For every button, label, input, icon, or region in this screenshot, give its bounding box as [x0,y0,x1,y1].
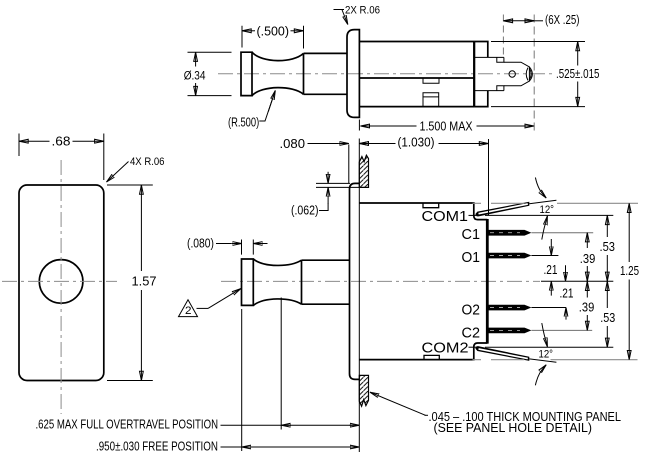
svg-text:(.080): (.080) [187,236,214,251]
panel horizontal centerline [2,280,117,282]
body bottom latch slot [424,355,439,359]
12° upper leader arc A [535,178,545,197]
dim .625 MAX line [221,424,360,426]
12° upper leader arc B [542,219,547,240]
body bottom lug [423,93,439,107]
svg-text:2: 2 [185,305,192,317]
free position ext line [241,309,243,451]
C2 extension line [531,329,592,331]
panel front face line [358,139,360,453]
svg-text:O1: O1 [462,249,481,266]
dim .080 ext line (flange face) [348,145,350,184]
dim .080 line and arrows [308,143,339,145]
dim 1.500 MAX line [360,125,416,127]
terminal base step (top) [475,42,488,58]
plunger knob cap (lower view) [242,259,254,305]
body parting line [359,77,474,79]
svg-text:.68: .68 [52,134,71,149]
dim .68 ext lines [18,134,20,157]
centerline (upper view axis) [218,73,552,75]
svg-text:Ø.34: Ø.34 [184,70,206,82]
dim (1.030) line [359,143,395,145]
dim (.500) extension lines [241,26,243,48]
panel hole [39,260,83,304]
svg-text:COM1: COM1 [422,208,469,225]
terminal notch bottom [497,86,504,91]
callout 2X R.06 leader [342,10,348,25]
blade COM1 angle projection line [529,200,556,203]
COM2 root extension line [485,346,613,348]
dim .39 upper line [586,233,588,248]
callout 4X R.06 leader [107,162,129,183]
blade COM2 angle projection line [529,359,556,362]
plunger knob cap [241,52,252,95]
dim .21 upper arrow (to O1) [550,239,552,256]
dim (.080) plunger ext lines [241,240,243,255]
body right face (thick) [486,219,489,344]
svg-text:(R.500): (R.500) [228,114,259,129]
svg-text:.21: .21 [560,286,574,301]
dim 1.57 line [140,185,142,271]
svg-text:O2: O2 [462,302,481,319]
svg-text:.080: .080 [280,136,306,151]
svg-text:.525±.015: .525±.015 [556,66,600,81]
svg-text:.950±.030 FREE POSITION: .950±.030 FREE POSITION [96,438,218,453]
svg-text:COM2: COM2 [422,340,469,357]
dim 1.25 line [628,203,630,262]
switch body (lower view) [359,203,487,360]
svg-text:.53: .53 [600,310,615,325]
terminal blade COM2 (angled) [475,346,529,361]
body top latch slot [423,203,439,208]
dim Ø.34 line with arrows [195,52,197,66]
O2 extension line [531,307,566,309]
dim (.500) line [242,30,255,32]
terminal tab [504,62,530,86]
plunger knob concave profile (lower view) [253,259,301,305]
dim .53 lower line [606,281,608,308]
dim .950 line [221,446,360,448]
svg-text:1.57: 1.57 [132,273,157,288]
svg-text:12°: 12° [540,204,555,216]
C1 extension line [531,232,593,234]
dim (.062) ref lines [316,182,350,184]
terminal hole [509,71,515,77]
phantom reference line (upper 12°) [473,202,639,204]
svg-text:1.500 MAX: 1.500 MAX [420,118,473,133]
svg-text:C1: C1 [462,226,481,243]
dim (6X .25) line [503,20,534,22]
terminal blade COM1 (angled) [475,202,529,217]
mounting panel section (bottom, hatched) [359,375,368,406]
panel note leader [370,392,426,415]
terminal tip end face [528,67,530,82]
body slot under parting line [423,78,439,83]
note flag triangle 2 [179,300,198,317]
terminal blade O1 [488,253,532,259]
plunger shaft [304,53,348,94]
dim (.062) leader elbow [319,203,328,211]
overtravel position ext line [280,298,282,430]
terminal blade C1 [488,230,532,236]
svg-text:12°: 12° [539,349,554,361]
dim Ø.34 extension lines [188,51,232,53]
dim (.080) plunger line and arrows [216,243,231,245]
svg-text:.39: .39 [579,299,595,314]
dim 1.57 ext lines [107,184,153,186]
12° lower leader arc B [542,323,547,344]
terminal tip inner crimp [526,68,528,81]
dim .525 line [577,42,579,66]
svg-text:(.500): (.500) [257,23,290,38]
svg-text:2X R.06: 2X R.06 [345,5,380,17]
terminal base step (bottom) [475,91,488,107]
dim .21 lower arrow (to centerline) [550,281,552,295]
panel outline (rounded rectangle) [19,185,104,381]
phantom reference line (lower 12°) [473,359,638,361]
callout (R.500) leader [259,92,275,122]
note flag leader [197,307,209,309]
dim (.062) arrows [327,172,329,184]
dim .21 lower arrow (to O2) [565,308,567,320]
svg-text:(SEE PANEL HOLE DETAIL): (SEE PANEL HOLE DETAIL) [434,420,593,435]
plunger shaft (lower view) [302,260,350,304]
centerline dimension terminal line [541,280,613,282]
terminal blade C2 [488,328,532,334]
dim .68 line [19,140,50,142]
dim .53 upper line [606,215,608,237]
terminal base edges [475,57,504,90]
svg-text:1.25: 1.25 [620,263,639,278]
svg-text:.625 MAX FULL OVERTRAVEL POSIT: .625 MAX FULL OVERTRAVEL POSITION [36,417,219,432]
svg-text:(1.030): (1.030) [398,134,435,149]
terminal notch top [497,57,504,62]
dim 1.500 MAX ext line [358,120,360,131]
label COM1 tie line [469,214,477,216]
body right face (thick) [474,42,476,107]
label COM2 tie line [469,346,477,348]
dim .21 upper arrow (to centerline) [565,265,567,281]
mounting panel section (top, hatched) [359,155,368,187]
COM1 root extension line [485,214,613,216]
svg-text:4X R.06: 4X R.06 [130,156,165,168]
dim (6X .25) ext lines (dashed) [502,15,504,57]
O1 extension line [531,255,558,257]
svg-text:(6X .25): (6X .25) [545,12,580,27]
plunger knob concave profile [252,52,304,95]
switch flange (front view strip) [350,183,360,379]
dim (1.030) right ext line [488,139,490,215]
svg-text:(.062): (.062) [291,202,319,217]
terminal blade O2 [488,305,532,311]
centerline (lower view axis) [221,280,540,282]
svg-text:.21: .21 [544,262,558,277]
mounting flange (side view) [347,30,359,118]
terminal tip dome [529,67,532,81]
svg-text:.53: .53 [600,239,616,254]
12° lower leader arc A [535,366,545,385]
dim .525 ext lines [491,41,585,43]
switch body (side view) [359,42,474,107]
panel vertical centerline [60,160,62,414]
dim .39 lower line [586,281,588,297]
svg-text:.39: .39 [580,251,596,266]
